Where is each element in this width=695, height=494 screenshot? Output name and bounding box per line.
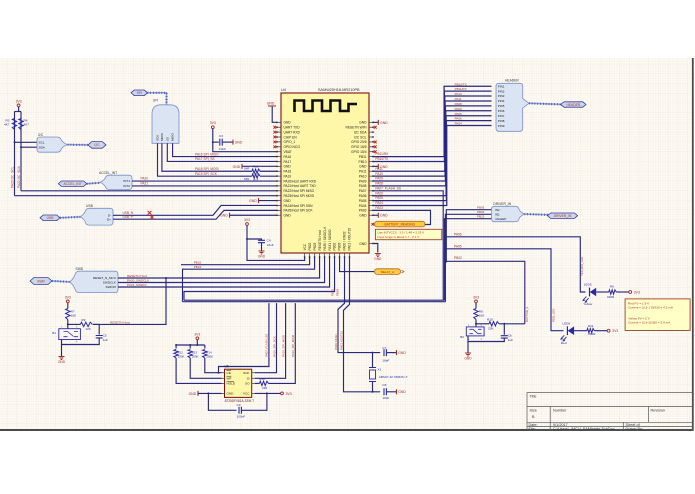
resistor R6 330R [609,290,617,294]
svg-text:PA01 XOUT32: PA01 XOUT32 [339,331,343,350]
port SWD [30,278,52,285]
svg-text:PA16_SPI_MISO: PA16_SPI_MISO [291,334,295,357]
svg-text:GND: GND [359,165,367,169]
svg-text:SCL: SCL [39,141,45,145]
svg-text:PA24/Host SPI SSN: PA24/Host SPI SSN [284,204,314,208]
svg-text:PB03: PB03 [338,242,342,250]
wire net PB22 from U4 [181,258,310,265]
svg-text:INT2: INT2 [123,184,130,188]
wire SPI MOSI to U4 PA18 with series resistor [162,143,252,171]
resistor R16 24R [260,381,269,385]
svg-text:C8: C8 [382,383,386,387]
push button B1 [59,329,81,340]
svg-text:GND: GND [380,121,388,125]
svg-text:WP: WP [227,377,232,381]
harness cable USB [60,216,80,219]
svg-text:PA20: PA20 [141,177,149,181]
svg-text:SCK: SCK [243,371,250,375]
svg-text:MISO: MISO [171,132,175,141]
wire C8 to ground [386,391,396,393]
svg-text:PB23: PB23 [477,215,485,219]
op-amp U4 module body SAMW25H18-MR210PB [281,93,369,253]
svg-text:PB10: PB10 [359,160,367,164]
power 3V3 above pullups [196,337,199,340]
wire SCL to harness [15,141,38,143]
power 3V3 at B2 [475,300,478,303]
svg-text:RESET_N_MCU: RESET_N_MCU [93,276,116,280]
capacitor C5 1uF [93,324,99,334]
wire INT1 to U4 PA20 [132,180,277,182]
no-ERC cross on USB_N [148,211,152,215]
svg-text:ACCEL_INT: ACCEL_INT [99,171,117,175]
wire C6 bottom rail [468,336,504,342]
svg-text:PA03: PA03 [359,209,367,213]
power 3V3 at C4 [246,223,249,226]
svg-text:D+: D+ [107,218,111,222]
svg-text:I2C: I2C [38,133,44,137]
capacitor C9 100nF [239,407,241,414]
svg-text:INT1: INT1 [123,179,130,183]
svg-text:100K: 100K [192,355,199,359]
wire R9 left to button node [68,323,81,325]
svg-text:IN2: IN2 [495,208,500,212]
svg-text:DRIVER_IN: DRIVER_IN [493,202,511,206]
svg-text:Input range is about 1.7 - 2.1: Input range is about 1.7 - 2.1 V [377,235,420,239]
svg-text:GND: GND [233,165,241,169]
wire U4 PB03 pin to RELAY_A [340,258,374,272]
svg-text:GND: GND [359,242,367,246]
wire USB_P to U4 PA25 [113,210,277,219]
wire U4 bottom-right GND pin [373,244,377,253]
svg-text:SCK: SCK [156,134,160,141]
svg-text:PA03: PA03 [375,206,383,210]
svg-text:18pF: 18pF [382,359,389,363]
power 3V3 at B1 [66,300,69,303]
svg-text:PB03: PB03 [477,206,485,210]
svg-text:3V3: 3V3 [244,218,250,222]
svg-text:GND: GND [359,121,367,125]
svg-text:3V3: 3V3 [634,290,640,294]
svg-text:3V3: 3V3 [65,295,71,299]
svg-text:Drawn By:: Drawn By: [626,427,644,431]
svg-text:PA22 I2C_SDA: PA22 I2C_SDA [17,165,21,188]
svg-text:PA21/Host UART TXD: PA21/Host UART TXD [284,184,317,188]
port I2C [88,142,106,149]
crystal X1 ABS07-32.768KHz-T [372,353,374,368]
svg-text:10K: 10K [71,314,77,318]
svg-text:PA07_FLASH_SS: PA07_FLASH_SS [265,334,269,357]
svg-text:PIN3: PIN3 [498,94,505,98]
svg-text:UART RXD: UART RXD [284,130,301,134]
wire net PA04 from U4 to header bus [373,126,491,206]
ground at U4 left row20 [229,213,231,218]
wire net PA11 from U4 to header bus [373,96,491,171]
U4 right pin stubs [369,122,373,243]
svg-text:PIN6: PIN6 [498,109,505,113]
svg-text:USB_P: USB_P [123,215,133,219]
svg-text:RESETN Host: RESETN Host [110,320,130,324]
wire 3V3 to R7 [67,303,69,309]
harness connector I2C [37,137,68,152]
svg-text:C:\Users\..\MCU_SAMheets.SchDo: C:\Users\..\MCU_SAMheets.SchDoc [553,427,615,431]
svg-text:File:: File: [529,427,536,431]
svg-text:PA04: PA04 [359,204,367,208]
harness cable HEADER [529,103,561,104]
svg-text:RED_LED: RED_LED [552,309,556,322]
svg-text:PA05: PA05 [455,112,462,116]
svg-text:GPIO 20/6: GPIO 20/6 [351,140,367,144]
svg-text:SO: SO [245,382,250,386]
svg-text:PB22: PB22 [308,242,312,250]
resistor R13 100K [188,350,192,359]
harness connector SPI [152,105,179,144]
wire U5 VCC to 3V3 [255,392,281,394]
svg-text:PA08: PA08 [375,182,383,186]
harness connector SWD [70,271,118,292]
svg-text:PA05: PA05 [454,244,462,248]
ground below U4 bottom-right [375,254,381,257]
svg-text:R11: R11 [588,324,594,328]
wire C3 branch [213,141,219,143]
sheet bottom border [0,429,694,431]
svg-text:PA17: PA17 [284,160,292,164]
svg-text:1uF: 1uF [103,338,108,342]
power 3V3 at R11 [607,329,610,332]
wire R11 to 3V3 [594,330,607,332]
wire LED6 to R11 [574,330,587,332]
svg-text:100K: 100K [206,355,213,359]
capacitor C3 10uF [220,139,222,146]
svg-text:4K7: 4K7 [4,123,10,127]
svg-text:GPIO 16/5: GPIO 16/5 [351,145,367,149]
svg-text:PA06: PA06 [455,117,462,121]
svg-text:SPI: SPI [137,91,142,95]
power 3V3 at U5 VCC [281,392,284,395]
U4 bottom pin stubs [305,253,350,258]
wire net PA07_FLASH_SS down the bus [373,191,443,300]
wire SPI SS to U4 PA17 [167,143,276,161]
svg-text:PB02: PB02 [454,256,462,260]
svg-text:3V3: 3V3 [473,295,479,299]
harness connector DRIVER_IN [492,206,525,221]
wire bus vertical to DRIVER_IN IN1 [445,214,493,301]
svg-text:GND: GND [380,214,388,218]
svg-text:PA10: PA10 [455,92,462,96]
wire net PA03 to battery reading [373,210,430,224]
svg-text:SS: SS [165,137,169,141]
svg-text:23K: 23K [488,326,494,330]
svg-text:GND: GND [374,257,382,261]
svg-text:GPIO_1: GPIO_1 [284,140,296,144]
svg-text:VCC: VCC [243,392,250,396]
svg-text:GPIO 15/4: GPIO 15/4 [351,150,367,154]
wire net PA09 from U4 to header bus [373,106,491,181]
highlighted net label RELAY_A [375,269,401,275]
wire net PB11/RX from U4 to header bus [373,86,491,156]
svg-text:100K: 100K [178,355,185,359]
svg-text:PA09: PA09 [359,179,367,183]
wire net PB02 from U4 to bundle [184,258,335,301]
svg-text:PA16: PA16 [284,155,292,159]
svg-text:R10: R10 [487,318,493,322]
svg-text:PB10/TX: PB10/TX [375,157,389,161]
svg-text:VBAT: VBAT [284,150,292,154]
svg-text:PA25/Host SPI SCK: PA25/Host SPI SCK [284,209,314,213]
U4 antenna meander symbol [295,101,358,113]
wire 3V3 to pullup rail [196,340,198,345]
svg-text:PA08: PA08 [359,184,367,188]
svg-text:PIN9: PIN9 [498,124,505,128]
svg-text:X1: X1 [378,368,382,372]
svg-text:GND: GND [235,141,243,145]
svg-text:Red: Red [561,341,567,345]
svg-text:PA09: PA09 [455,107,462,111]
svg-text:PA21: PA21 [141,182,149,186]
sheet background [0,58,694,431]
svg-text:U4: U4 [281,88,286,92]
svg-text:Title: Title [530,395,537,399]
svg-text:GND: GND [398,390,406,394]
harness cable I2C [68,144,88,146]
svg-text:91K: 91K [479,314,485,318]
resistor R14 100K [203,350,207,359]
wire C5 bottom to button bottom rail [62,338,100,345]
svg-text:DRIVER_IN: DRIVER_IN [554,214,572,218]
svg-text:PA06: PA06 [375,191,383,195]
svg-text:PA10: PA10 [375,172,383,176]
svg-text:PA09: PA09 [375,177,383,181]
note box battery INTVCC [375,229,441,239]
port SPI [131,90,148,96]
power 3V3 top-left [17,104,20,107]
svg-text:BATTERY_READING: BATTERY_READING [384,223,415,227]
svg-text:GND: GND [220,214,228,218]
flash U5 body AT25DF081A [225,369,252,397]
wire branch to C4 [247,239,262,240]
svg-text:SWD: SWD [76,267,84,271]
svg-text:BUTTON_2: BUTTON_2 [525,307,529,322]
svg-text:Use INTVCC0 : 3.3 / 1.48 = 2.2: Use INTVCC0 : 3.3 / 1.48 = 2.23 V [377,231,425,235]
no-ERC cross on USB_P [150,215,154,219]
resistor R9 12K [80,322,92,326]
svg-text:R17: R17 [253,178,259,182]
wire XOUT32 from U4 down to crystal [344,258,381,392]
svg-text:IN1: IN1 [495,213,500,217]
resistor R17 54R on PA19 [252,174,260,178]
ground at C8 [396,389,398,394]
svg-text:330R: 330R [588,332,596,336]
svg-text:Yellow: Yellow [583,302,593,306]
svg-text:4K7: 4K7 [24,123,30,127]
svg-text:GND: GND [284,165,292,169]
wire R12 top [175,345,177,349]
svg-text:Size: Size [530,409,537,413]
svg-text:SWDIO: SWDIO [106,285,117,289]
svg-text:3V3: 3V3 [210,121,216,125]
capacitor C8 18pF [384,388,386,395]
svg-text:GND: GND [284,214,292,218]
svg-text:SWDCLK: SWDCLK [103,281,117,285]
svg-text:PB23: PB23 [313,242,317,250]
svg-text:RESETN WIFI: RESETN WIFI [346,126,367,130]
svg-text:GND: GND [464,356,472,360]
svg-text:C6: C6 [508,334,512,338]
svg-text:PA01 / XOUT32: PA01 / XOUT32 [348,228,352,251]
svg-text:18pF: 18pF [382,396,389,400]
svg-text:PA30_SWDCLK: PA30_SWDCLK [127,278,150,282]
svg-text:C5: C5 [103,334,107,338]
wire net PA06 to yellow LED [444,237,585,292]
svg-text:PA31_SWDIO: PA31_SWDIO [127,283,147,287]
sheet right border [692,58,694,431]
ground at C7 [396,350,398,355]
svg-text:1uF: 1uF [508,338,513,342]
svg-text:PA18: PA18 [284,170,292,174]
wire bus down-left feed horizontal bundle [184,299,444,301]
svg-text:GND: GND [284,121,292,125]
svg-text:PA10: PA10 [359,174,367,178]
svg-text:RESETN Host: RESETN Host [127,274,147,278]
svg-text:nSLEEP: nSLEEP [495,217,506,221]
highlighted net label BATTERY_READING [375,221,426,227]
svg-text:GND: GND [284,199,292,203]
wire LED5 to R6 [596,291,609,293]
svg-text:GND: GND [258,254,266,258]
wire net PA18 SPI MOSI to U5 SI [255,303,286,378]
port ACCEL_INT [58,181,87,186]
port USB [40,215,60,221]
LED LED6 red [566,326,568,335]
wire C9 to VCC branch [241,393,267,410]
harness connector ACCEL_INT [100,175,132,189]
wire RESETN Host branch to button B1 [93,278,166,324]
wire net PA08 from U4 to header bus [373,111,491,186]
wire 3V3 down to VCC pin [247,225,305,260]
svg-text:PA04: PA04 [455,122,462,126]
svg-text:C7: C7 [382,346,386,350]
svg-text:PB22: PB22 [194,261,202,265]
svg-text:GND: GND [267,102,275,106]
svg-text:PA00 XIN32: PA00 XIN32 [334,334,338,350]
resistor R12 100K [174,350,178,359]
wire net RESETN Host from U4 to SWD [118,258,320,279]
svg-text:R6: R6 [610,285,614,289]
svg-text:YELLOW_LED: YELLOW_LED [580,257,584,276]
svg-text:PA31 / SWDIO: PA31 / SWDIO [328,229,332,251]
svg-text:3V3: 3V3 [194,332,200,336]
wire SDA to harness [21,146,37,148]
svg-text:RESETN Host: RESETN Host [318,230,322,250]
wire R10 to net PB02 vertical [499,323,525,325]
svg-text:SWD: SWD [37,279,45,283]
U4 no-ERC marks left pins [273,126,276,129]
svg-text:3V3: 3V3 [286,392,292,396]
svg-text:PA23 I2C_SCL: PA23 I2C_SCL [10,166,14,188]
wire net PA23 long SCL to U4 [15,195,277,197]
wire 3V3 to VBAT pin [213,129,277,152]
svg-text:PA18_SPI_MOSI: PA18_SPI_MOSI [281,335,285,357]
svg-text:HOLD: HOLD [227,382,236,386]
push button B2 [466,327,484,336]
svg-text:HEADER: HEADER [567,103,581,107]
note box LED currents [625,299,690,331]
svg-text:330R: 330R [607,295,615,299]
wire button node to R10 [476,323,489,325]
svg-text:Current = (3.3-2)/330 = 3.9 mA: Current = (3.3-2)/330 = 3.9 mA [628,321,671,325]
ground at U4 left row10 [241,164,243,169]
title block text [529,395,666,432]
wire net PB02 to button B2 [446,261,525,324]
resistor R4 4K7 [19,119,23,130]
svg-text:C3: C3 [219,134,223,138]
svg-text:LED5: LED5 [584,282,592,286]
wire bus vertical to DRIVER_IN nSLEEP [444,219,493,301]
svg-text:10uF: 10uF [219,147,226,151]
svg-text:PA19 SPI_SCK: PA19 SPI_SCK [195,172,218,176]
svg-text:PA08: PA08 [455,102,462,106]
resistor R11 330R [587,329,595,333]
svg-text:ACCEL_INT: ACCEL_INT [63,182,81,186]
U4 left pin stubs [277,122,281,215]
svg-text:PA19_SPI_SCK: PA19_SPI_SCK [272,336,276,357]
ground at C4 [259,251,265,254]
svg-text:CE: CE [227,371,231,375]
title block frame [527,393,693,431]
wire XIN32 from U4 down to crystal [338,258,380,353]
svg-text:PIN4: PIN4 [498,99,505,103]
svg-text:PIN1: PIN1 [498,84,505,88]
svg-text:USB: USB [47,216,55,220]
ground at U4 right row10 [373,165,378,167]
ground at B2 [465,353,471,356]
svg-text:PA05: PA05 [375,196,383,200]
svg-text:54R: 54R [244,177,249,181]
svg-text:Revision: Revision [651,409,666,413]
svg-text:PA05: PA05 [359,199,367,203]
resistor R8 91K [474,309,478,320]
svg-text:PB02: PB02 [333,242,337,250]
wire net PA05 to red LED [445,249,563,331]
wire net PB10/TX from U4 to header bus [373,91,491,161]
svg-text:PA11: PA11 [359,170,367,174]
wire GND down to U4 pin1 [272,107,276,123]
svg-text:PIN5: PIN5 [498,104,505,108]
wire net PA30 SWDCLK from U4 to SWD [118,258,325,283]
svg-text:ABS07-32.768KHz-T: ABS07-32.768KHz-T [379,375,408,379]
svg-text:24R: 24R [262,386,267,390]
wire R7 to button B1 [67,320,69,329]
U4 no-ERC marks right pins [374,126,377,129]
svg-text:Number: Number [553,409,567,413]
svg-text:PA04: PA04 [375,201,383,205]
harness cable ACCEL_INT [87,182,100,185]
wire net PA22 long SDA to U4 [21,190,277,192]
svg-text:PB10/TX: PB10/TX [455,82,467,86]
ground at U4 right row1 [373,121,378,123]
wire button B2 to ground [467,342,469,353]
svg-text:C9: C9 [237,403,241,407]
svg-text:3V3: 3V3 [612,329,618,333]
wire SPI MISO to U4 PA16 [173,143,277,156]
wire C3 to GND [222,141,233,143]
svg-text:VCC: VCC [303,243,307,250]
svg-text:I2C SCL: I2C SCL [354,135,366,139]
wire SPI SCK to U4 PA19 with series resistor [158,143,253,176]
svg-text:I2C SDA: I2C SDA [354,130,367,134]
power 3V3 at VBAT [211,126,214,129]
svg-text:GPIO NC/3: GPIO NC/3 [284,145,301,149]
svg-text:PA19: PA19 [284,174,292,178]
